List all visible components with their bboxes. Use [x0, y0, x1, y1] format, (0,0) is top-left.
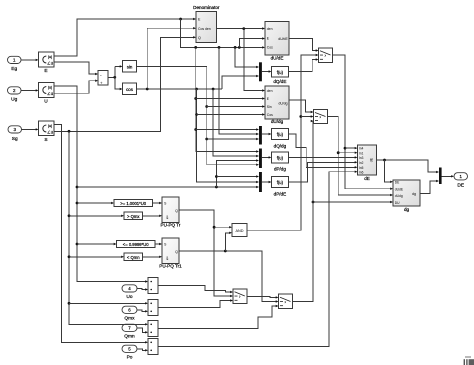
wire E angle to sum: [54, 62, 98, 75]
wire cos to Cos den: [147, 27, 196, 89]
output port 1 DE: [454, 173, 468, 189]
mux output: [439, 168, 442, 185]
wire cos down branch: [195, 89, 259, 183]
wire Ug to U: [21, 89, 39, 91]
svg-text:Qmx: Qmx: [124, 315, 135, 321]
wire cos second down branch: [213, 89, 259, 157]
svg-text:dP/dg: dP/dg: [274, 167, 286, 172]
wire E to dUdg E: [196, 97, 265, 99]
svg-text:Cos: Cos: [267, 113, 273, 117]
wire dQdE to Switch1 in3: [288, 58, 318, 71]
svg-text:|u|: |u|: [48, 54, 52, 59]
wire AND out: [247, 54, 319, 230]
wire den out: [217, 27, 266, 30]
wire Q to product Qmx: [69, 302, 148, 304]
svg-text:∠u: ∠u: [47, 91, 54, 96]
mux dQdE: [259, 62, 262, 81]
wire dQdg to dE In5: [288, 134, 357, 168]
svg-text:< Qmn: < Qmn: [127, 255, 140, 260]
complex-to-real-imag block S: [39, 121, 55, 143]
svg-text:den: den: [267, 89, 273, 93]
subsystem PU-PQ Tr1: [159, 238, 182, 269]
sin block: [123, 61, 137, 72]
svg-text:PU-PQ Tr1: PU-PQ Tr1: [159, 264, 182, 269]
wire E drop to bundle: [181, 19, 265, 49]
product Po: [148, 338, 158, 354]
svg-text:den: den: [267, 27, 273, 31]
wire U to mux dPdE1: [216, 175, 259, 177]
svg-text:PU-PQ Tr: PU-PQ Tr: [161, 223, 181, 228]
svg-text:dE: dE: [370, 157, 374, 162]
wire Q trunk: [68, 131, 148, 325]
svg-text:dUdE: dUdE: [395, 187, 404, 191]
wire dUdg out to Switch2: [289, 100, 314, 113]
wire U to compare U0 lower: [77, 243, 117, 245]
wire sin to mux dQdg3: [207, 138, 259, 140]
wire cos up to mux dQdE: [222, 75, 259, 89]
wire mux to outport: [442, 175, 454, 177]
svg-text:Eg: Eg: [11, 66, 17, 72]
wire sin to dUdg Sin: [207, 105, 265, 107]
wire Q to compare Qmn: [69, 256, 124, 258]
wire control to Switch2: [301, 115, 314, 117]
wire Po to product: [137, 349, 148, 352]
wire E to mux dQdg: [196, 128, 259, 130]
wire Switch3 to Switch4: [247, 296, 279, 298]
fcn dQdg: [271, 129, 288, 149]
compare >= 1.0001*U0: [114, 199, 153, 206]
svg-text:Q: Q: [198, 36, 201, 40]
wire Switch2 branch to dE In1: [338, 152, 357, 154]
wire cos out: [137, 88, 223, 91]
subsystem dU/dE: [265, 22, 289, 61]
svg-text:+: +: [100, 80, 103, 85]
wire dg out: [420, 180, 439, 194]
svg-text:Denominator: Denominator: [193, 5, 220, 10]
wire Switch4 out up: [293, 120, 314, 302]
svg-text:Ug: Ug: [11, 96, 17, 102]
input port 6 Qmx: [122, 306, 137, 321]
wire Switch4 to dg DU: [312, 201, 393, 204]
product Uo: [148, 278, 158, 294]
wire product Po long line: [158, 171, 358, 347]
fcn dPdg: [271, 152, 288, 172]
wire Sg to S: [22, 128, 39, 130]
wire Tr Q out: [179, 210, 233, 297]
wire U second trunk: [215, 159, 259, 187]
svg-text:|u|: |u|: [48, 85, 52, 90]
svg-text:dQ/dg: dQ/dg: [274, 144, 287, 149]
mux dPdE: [259, 172, 262, 192]
subsystem dE: [358, 145, 377, 181]
svg-text:Uo: Uo: [126, 294, 132, 300]
input port 7 Qmn: [122, 324, 137, 339]
wire cos to dUdg Cos: [197, 113, 266, 115]
svg-text:In4: In4: [359, 147, 364, 151]
svg-text:dg: dg: [412, 192, 416, 196]
wire Eg to E: [21, 59, 39, 61]
svg-text:U: U: [44, 98, 48, 104]
subsystem dU/dg: [265, 86, 289, 124]
wire Switch2 out: [328, 117, 394, 197]
svg-text:dU/dg: dU/dg: [278, 102, 287, 106]
svg-text:f(u): f(u): [277, 156, 284, 161]
product Qmn: [148, 320, 158, 336]
wire E bundle trunk: [194, 47, 259, 152]
wire sin out: [137, 66, 260, 165]
svg-text:In1: In1: [359, 151, 364, 155]
wire sum to sin and cos: [108, 65, 123, 90]
input port 1 Eg: [8, 56, 22, 72]
wire S real to product Po: [54, 125, 148, 344]
svg-text:|u|: |u|: [48, 123, 52, 128]
wire S imag to Denominator Q: [54, 36, 196, 133]
wire mux to fcn dQdE: [262, 70, 272, 72]
svg-text:dU/dE: dU/dE: [271, 56, 284, 61]
wire Tr1 Q out: [179, 250, 279, 303]
switch Switch3: [233, 289, 247, 304]
wire bundle to dUdE E: [239, 37, 265, 47]
svg-text:dE: dE: [364, 176, 370, 181]
svg-text:In3: In3: [359, 156, 364, 160]
svg-text:Po: Po: [127, 354, 133, 360]
wire cmp2 to Tr dn: [143, 215, 163, 217]
wire Qmn to product: [137, 328, 148, 334]
svg-text:dUdg: dUdg: [395, 194, 403, 198]
wire U long line to mux dPdE: [77, 186, 259, 189]
svg-text:Cos: Cos: [267, 46, 273, 50]
svg-text:∠u: ∠u: [47, 129, 54, 134]
complex-to-mag-angle block U: [39, 83, 55, 105]
wire Tr1 Q to AND: [225, 232, 232, 251]
svg-text:>= 1.0001*U0: >= 1.0001*U0: [120, 201, 147, 206]
svg-text:dU/dg: dU/dg: [271, 119, 284, 124]
wire U magnitude trunk: [54, 86, 148, 283]
wire Q to compare Qmx: [69, 215, 124, 217]
product Qmx: [148, 299, 158, 315]
wire Tr Q to AND: [214, 226, 232, 228]
svg-text:In5: In5: [359, 166, 364, 170]
wire dE out: [377, 159, 440, 174]
switch Switch1: [319, 48, 333, 63]
svg-text:f(u): f(u): [277, 70, 284, 75]
svg-text:⇓: ⇓: [165, 256, 169, 262]
compare < Qmn: [124, 253, 143, 260]
wire E third drop to mux dQdE: [235, 47, 259, 68]
svg-text:DE: DE: [395, 181, 400, 185]
svg-text:dg: dg: [404, 207, 410, 212]
input port 4 Uo: [122, 285, 137, 300]
wire U angle to sum: [54, 80, 98, 94]
svg-text:cos: cos: [126, 87, 134, 92]
svg-text:dU/dE: dU/dE: [278, 37, 288, 41]
svg-text:Qmn: Qmn: [124, 333, 135, 339]
sum block: [98, 71, 108, 86]
wire den to dUdg: [244, 29, 265, 92]
wire Switch1 branch to dE In4: [345, 147, 358, 149]
svg-text:dQ/dE: dQ/dE: [273, 79, 286, 84]
wire dPdE to dE In2: [288, 161, 357, 182]
svg-text:Q: Q: [175, 250, 178, 254]
wire dUdE out to Switch1: [289, 39, 319, 52]
svg-text:AND: AND: [235, 229, 243, 233]
svg-text:<= 0.9999*U0: <= 0.9999*U0: [123, 242, 150, 247]
svg-text:In6: In6: [359, 170, 364, 174]
svg-text:E: E: [44, 68, 47, 74]
wire mux to fcn dPdE: [262, 181, 272, 183]
svg-text:Cos den: Cos den: [198, 27, 211, 31]
compare <= 0.9999*U0: [117, 240, 156, 247]
switch Switch2: [314, 110, 328, 124]
wire dE to dg DE: [385, 160, 394, 183]
svg-text:Sin: Sin: [267, 105, 272, 109]
wire cmp1 to Tr S: [153, 202, 163, 204]
switch Switch4: [279, 294, 293, 309]
logic AND: [232, 224, 247, 237]
wire cmp4 to Tr1 dn: [143, 256, 163, 258]
input port 5 Po: [122, 345, 137, 360]
svg-text:sin: sin: [127, 65, 133, 70]
wire U to compare U0 upper: [77, 202, 114, 204]
wire Switch1 out: [333, 55, 394, 190]
complex-to-mag-angle block E: [39, 52, 55, 74]
wire E magnitude to Denominator E: [54, 18, 196, 56]
subsystem dg: [393, 180, 420, 212]
mux dPdg: [259, 149, 262, 169]
input port 3 Sg: [8, 126, 22, 142]
svg-text:S: S: [44, 137, 47, 143]
wire mux to fcn dPdg: [262, 156, 272, 158]
wire mux to fcn dQdg: [262, 133, 272, 135]
svg-text:In2: In2: [359, 161, 364, 165]
logo mark: [464, 356, 474, 365]
cos block: [123, 83, 137, 95]
fcn dQdE: [271, 66, 288, 84]
fcn dPdE: [271, 177, 288, 197]
wire E second trunk: [219, 47, 259, 135]
wire cmp3 to Tr1 S: [155, 243, 162, 245]
compare > Qmx: [124, 212, 143, 219]
svg-text:DE: DE: [457, 182, 464, 188]
svg-text:> Qmx: > Qmx: [127, 214, 140, 219]
subsystem Denominator: [193, 5, 220, 43]
wire product Uo to Switch3: [158, 286, 233, 294]
svg-text:Sg: Sg: [12, 136, 18, 142]
svg-text:f(u): f(u): [277, 180, 284, 185]
wire dPdg to dE In3: [288, 156, 357, 158]
mux dQdg: [259, 126, 262, 145]
svg-text:⇓: ⇓: [165, 215, 169, 221]
subsystem PU-PQ Tr: [161, 197, 181, 228]
wire product Qmn to Switch4: [158, 305, 279, 328]
svg-text:Q: Q: [175, 209, 178, 213]
svg-text:f(u): f(u): [277, 132, 284, 137]
wire Uo to product: [137, 288, 148, 290]
svg-text:∠u: ∠u: [47, 60, 54, 65]
svg-text:DU: DU: [395, 201, 400, 205]
wire product Qmx to Switch3: [158, 299, 233, 307]
input port 2 Ug: [8, 87, 22, 103]
svg-text:dP/dE: dP/dE: [274, 191, 287, 196]
wire Qmx to product: [137, 310, 148, 313]
